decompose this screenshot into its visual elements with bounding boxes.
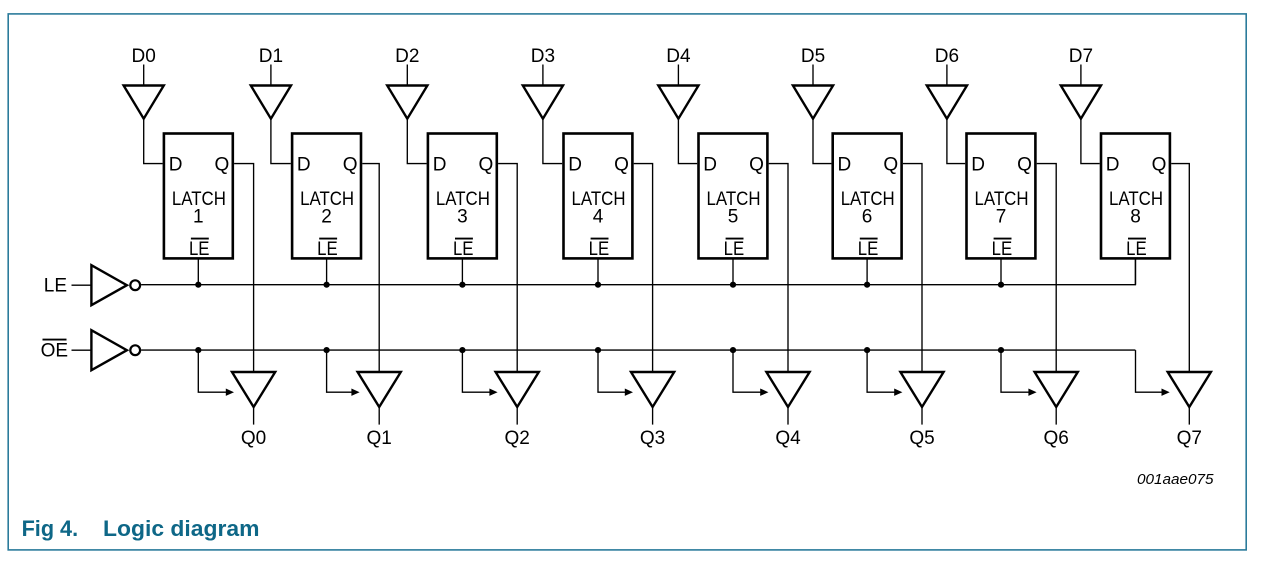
svg-text:D3: D3 [531,46,555,67]
input buffer D5 (non-inverting) [793,86,833,119]
wire D0 label to input buffer [143,65,145,86]
input buffer D7 (non-inverting) [1061,86,1101,119]
wire output buffer Q4 to Q4 terminal [787,407,789,425]
3-state output buffer Q2 [496,372,539,407]
svg-text:LE: LE [589,239,610,260]
svg-text:D: D [433,155,447,176]
junction dot LE bus latch 3 [459,282,465,288]
wire OE bus end to output buffer Q7 enable [1136,350,1164,392]
input buffer D3 (non-inverting) [523,86,563,119]
svg-text:Q2: Q2 [505,428,530,449]
svg-text:Q: Q [614,155,629,176]
wire output buffer Q3 to Q3 terminal [652,407,654,425]
latch 7 box [967,134,1036,259]
latch 6 box [833,134,902,259]
enable arrowhead buffer Q3 [625,389,633,396]
wire latch 1 LE pin to LE bus [197,258,199,284]
latch 7 LE overline [994,238,1012,240]
svg-text:D0: D0 [132,46,156,67]
3-state output buffer Q6 [1035,372,1078,407]
3-state output buffer Q4 [766,372,809,407]
svg-text:LE: LE [317,239,338,260]
svg-text:D: D [703,155,717,176]
wire output buffer Q5 to Q5 terminal [921,407,923,425]
wire OE bus to output buffer Q4 enable [733,350,762,392]
latch 2 LE overline [319,238,337,240]
wire latch 1 Q output to output buffer Q0 [234,164,254,372]
3-state output buffer Q1 [358,372,401,407]
input buffer D2 (non-inverting) [387,86,427,119]
OE inverter triangle [91,330,127,370]
svg-text:D: D [971,155,985,176]
wire D6 label to input buffer [946,65,948,86]
wire OE bus to output buffer Q0 enable [198,350,228,392]
svg-text:Q: Q [1152,155,1167,176]
LE inverter triangle [91,265,127,305]
svg-text:Q: Q [883,155,898,176]
3-state output buffer Q7 [1168,372,1211,407]
svg-text:D2: D2 [395,46,419,67]
junction dot LE bus latch 7 [998,282,1004,288]
latch 8 LE overline [1128,238,1146,240]
wire latch 8 LE pin to LE bus [1135,258,1137,284]
latch 6 LE overline [860,238,878,240]
junction dot LE bus latch 2 [324,282,330,288]
input buffer D0 (non-inverting) [124,86,164,119]
wire D7 label to input buffer [1080,65,1082,86]
svg-text:Logic diagram: Logic diagram [103,516,260,541]
latch 3 LE overline [455,238,473,240]
wire input buffer D1 to latch 2 D pin [271,119,291,164]
latch 4 box [564,134,633,259]
svg-text:LE: LE [44,276,67,297]
wire latch 7 Q output to output buffer Q6 [1037,164,1057,372]
wire OE bus to output buffer Q2 enable [462,350,491,392]
svg-text:7: 7 [996,206,1007,227]
junction dot LE bus latch 1 [195,282,201,288]
wire latch 3 LE pin to LE bus [461,258,463,284]
wire latch 2 LE pin to LE bus [326,258,328,284]
enable arrowhead buffer Q2 [489,389,497,396]
wire D3 label to input buffer [542,65,544,86]
wire OE bus to output buffer Q5 enable [867,350,896,392]
input buffer D1 (non-inverting) [251,86,291,119]
junction dot OE bus latch 4 [595,347,601,353]
wire D5 label to input buffer [812,65,814,86]
junction dot LE bus latch 6 [864,282,870,288]
wire input buffer D3 to latch 4 D pin [543,119,562,164]
svg-text:LE: LE [453,239,474,260]
svg-text:D6: D6 [935,46,959,67]
input buffer D4 (non-inverting) [658,86,698,119]
latch 2 box [292,134,361,259]
svg-text:1: 1 [193,206,204,227]
wire input buffer D5 to latch 6 D pin [813,119,831,164]
svg-text:001aae075: 001aae075 [1137,472,1214,488]
junction dot OE bus latch 7 [998,347,1004,353]
latch 5 box [699,134,768,259]
wire latch 8 Q output to output buffer Q7 [1171,164,1189,372]
enable arrowhead buffer Q1 [351,389,359,396]
svg-text:D: D [169,155,183,176]
wire output buffer Q0 to Q0 terminal [253,407,255,425]
wire OE bus to output buffer Q6 enable [1001,350,1031,392]
svg-text:LE: LE [724,239,745,260]
svg-text:Q: Q [215,155,230,176]
input buffer D6 (non-inverting) [927,86,967,119]
svg-text:D5: D5 [801,46,825,67]
wire output buffer Q2 to Q2 terminal [516,407,518,425]
wire latch 4 LE pin to LE bus [597,258,599,284]
enable arrowhead buffer Q6 [1028,389,1036,396]
svg-text:2: 2 [321,206,332,227]
wire latch 4 Q output to output buffer Q3 [634,164,653,372]
svg-text:D: D [297,155,311,176]
svg-text:D: D [568,155,582,176]
svg-text:Q7: Q7 [1177,428,1202,449]
junction dot OE bus latch 1 [195,347,201,353]
enable arrowhead buffer Q4 [760,389,768,396]
junction dot LE bus latch 4 [595,282,601,288]
svg-text:D: D [1106,155,1120,176]
latch 1 LE overline [191,238,209,240]
svg-text:D: D [838,155,852,176]
svg-text:LE: LE [858,239,879,260]
wire D1 label to input buffer [270,65,272,86]
junction dot OE bus latch 3 [459,347,465,353]
svg-text:Q: Q [1017,155,1032,176]
wire LE label to LE inverter [72,284,92,286]
wire OE bus to output buffer Q1 enable [327,350,354,392]
enable arrowhead buffer Q0 [226,389,234,396]
wire input buffer D0 to latch 1 D pin [144,119,163,164]
wire output buffer Q7 to Q7 terminal [1188,407,1190,425]
latch 5 LE overline [726,238,744,240]
latch 1 box [164,134,233,259]
wire latch 6 LE pin to LE bus [866,258,868,284]
wire latch 7 LE pin to LE bus [1000,258,1002,284]
enable arrowhead buffer Q7 [1162,389,1170,396]
svg-text:Q: Q [479,155,494,176]
wire latch 2 Q output to output buffer Q1 [362,164,379,372]
wire OE bus to output buffer Q3 enable [598,350,627,392]
svg-text:Q1: Q1 [367,428,392,449]
OE bus wire [141,349,1135,351]
3-state output buffer Q5 [900,372,943,407]
wire D4 label to input buffer [677,65,679,86]
wire output buffer Q6 to Q6 terminal [1055,407,1057,425]
svg-text:Q6: Q6 [1044,428,1069,449]
enable arrowhead buffer Q5 [894,389,902,396]
wire input buffer D4 to latch 5 D pin [678,119,697,164]
svg-text:D7: D7 [1069,46,1093,67]
svg-text:Q0: Q0 [241,428,266,449]
latch 4 LE overline [591,238,609,240]
3-state output buffer Q3 [631,372,674,407]
OE label overline [43,339,67,341]
junction dot OE bus latch 6 [864,347,870,353]
wire latch 3 Q output to output buffer Q2 [498,164,517,372]
svg-text:Q5: Q5 [909,428,934,449]
wire OE label to OE inverter [72,349,92,351]
svg-text:Q3: Q3 [640,428,665,449]
svg-text:3: 3 [457,206,468,227]
svg-text:Q: Q [749,155,764,176]
svg-text:Q: Q [343,155,358,176]
wire D2 label to input buffer [406,65,408,86]
junction dot LE bus latch 5 [730,282,736,288]
LE bus wire [141,258,1135,284]
svg-text:D1: D1 [259,46,283,67]
3-state output buffer Q0 [232,372,275,407]
wire output buffer Q1 to Q1 terminal [378,407,380,425]
svg-text:8: 8 [1130,206,1141,227]
wire latch 5 LE pin to LE bus [732,258,734,284]
svg-text:6: 6 [862,206,873,227]
latch 8 box [1101,134,1170,259]
svg-text:LE: LE [992,239,1013,260]
svg-text:D4: D4 [666,46,691,67]
svg-text:Q4: Q4 [775,428,801,449]
junction dot OE bus latch 2 [324,347,330,353]
svg-text:Fig 4.: Fig 4. [22,516,79,541]
wire input buffer D6 to latch 7 D pin [947,119,965,164]
LE inverter bubble [130,280,140,290]
OE inverter bubble [130,345,140,355]
svg-text:OE: OE [41,340,68,361]
junction dot OE bus latch 5 [730,347,736,353]
svg-text:4: 4 [593,206,604,227]
svg-text:5: 5 [728,206,739,227]
wire latch 6 Q output to output buffer Q5 [903,164,922,372]
latch 3 box [428,134,497,259]
wire input buffer D7 to latch 8 D pin [1081,119,1100,164]
wire latch 5 Q output to output buffer Q4 [769,164,788,372]
wire input buffer D2 to latch 3 D pin [407,119,426,164]
svg-text:LE: LE [1126,239,1147,260]
svg-text:LE: LE [189,239,210,260]
